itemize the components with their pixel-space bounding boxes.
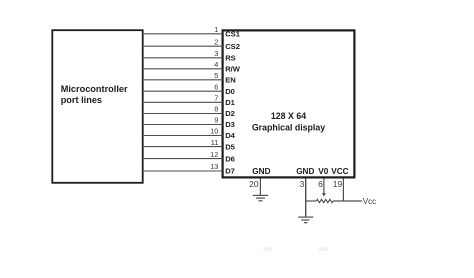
svg-text:CS1: CS1 — [225, 30, 241, 39]
svg-text:10: 10 — [210, 127, 218, 136]
svg-text:D6: D6 — [225, 154, 235, 163]
wire: pin 19 down to Vcc rail — [342, 179, 344, 202]
wire pin 10 (D4) — [143, 135, 223, 137]
label: 128 X 64 Graphical display — [252, 111, 325, 133]
svg-text:9: 9 — [214, 116, 218, 125]
svg-text:20: 20 — [249, 179, 259, 189]
svg-text:Graphical display: Graphical display — [252, 123, 325, 133]
wire pin 1 (CS1) — [143, 33, 223, 35]
wiper arrow: pin 6 (V0) to potentiometer — [322, 179, 326, 197]
svg-text:D5: D5 — [225, 142, 235, 151]
svg-text:Vcc: Vcc — [363, 197, 376, 206]
svg-text:GND: GND — [296, 167, 314, 176]
ground symbol (pin 20) — [253, 195, 269, 200]
svg-text:3: 3 — [300, 179, 305, 189]
wire: pin 3 down to ground / pot junction — [305, 179, 307, 218]
svg-text:D3: D3 — [225, 120, 235, 129]
svg-text:VCC: VCC — [331, 167, 348, 176]
wire pin 9 (D3) — [143, 124, 223, 126]
svg-text:V0: V0 — [318, 167, 328, 176]
wire: pin 20 to ground — [259, 179, 261, 196]
svg-text:R/W: R/W — [225, 65, 241, 74]
svg-text:D2: D2 — [225, 109, 235, 118]
wire pin 8 (D2) — [143, 113, 223, 115]
svg-text:CS2: CS2 — [225, 42, 240, 51]
svg-text:D4: D4 — [225, 131, 235, 140]
svg-text:D1: D1 — [225, 98, 235, 107]
wire pin 11 (D5) — [143, 146, 223, 148]
svg-text:12: 12 — [210, 150, 218, 159]
svg-text:128 X 64: 128 X 64 — [271, 111, 306, 121]
svg-text:6: 6 — [318, 179, 323, 189]
svg-text:6: 6 — [214, 82, 218, 91]
svg-text:13: 13 — [210, 162, 218, 171]
wire pin 2 (CS2) — [143, 45, 223, 47]
svg-text:11: 11 — [211, 138, 219, 147]
svg-text:1: 1 — [214, 25, 218, 34]
svg-text:port lines: port lines — [61, 95, 102, 105]
wire: ground junction to potentiometer — [306, 200, 317, 202]
ground symbol (pin 3) — [298, 217, 313, 223]
graphical display U2 (128 X 64 GLCD box) — [223, 30, 355, 177]
svg-text:3: 3 — [214, 49, 218, 58]
svg-text:8: 8 — [214, 105, 218, 114]
potentiometer R1 (contrast adjust) — [316, 199, 333, 202]
svg-text:RS: RS — [225, 54, 236, 63]
svg-text:D7: D7 — [225, 167, 235, 176]
wire: potentiometer to Vcc — [333, 200, 362, 202]
svg-text:19: 19 — [333, 179, 343, 189]
svg-text:2: 2 — [214, 37, 218, 46]
wire pin 12 (D6) — [143, 158, 223, 160]
svg-text:5: 5 — [214, 71, 218, 80]
svg-text:Microcontroller: Microcontroller — [61, 84, 128, 94]
wire pin 3 (RS) — [143, 57, 223, 59]
svg-text:7: 7 — [214, 94, 218, 103]
wire pin 7 (D1) — [143, 101, 223, 103]
svg-text:EN: EN — [225, 76, 236, 85]
wire pin 6 (D0) — [143, 90, 223, 92]
microcontroller U1 (port lines box) — [52, 30, 142, 183]
label: Microcontroller port lines — [61, 84, 128, 105]
svg-text:GND: GND — [252, 167, 270, 176]
svg-text:D0: D0 — [225, 87, 235, 96]
wire pin 5 (EN) — [143, 79, 223, 81]
svg-text:4: 4 — [214, 60, 218, 69]
wire pin 4 (R/W) — [143, 68, 223, 70]
wire pin 13 (D7) — [143, 170, 223, 172]
